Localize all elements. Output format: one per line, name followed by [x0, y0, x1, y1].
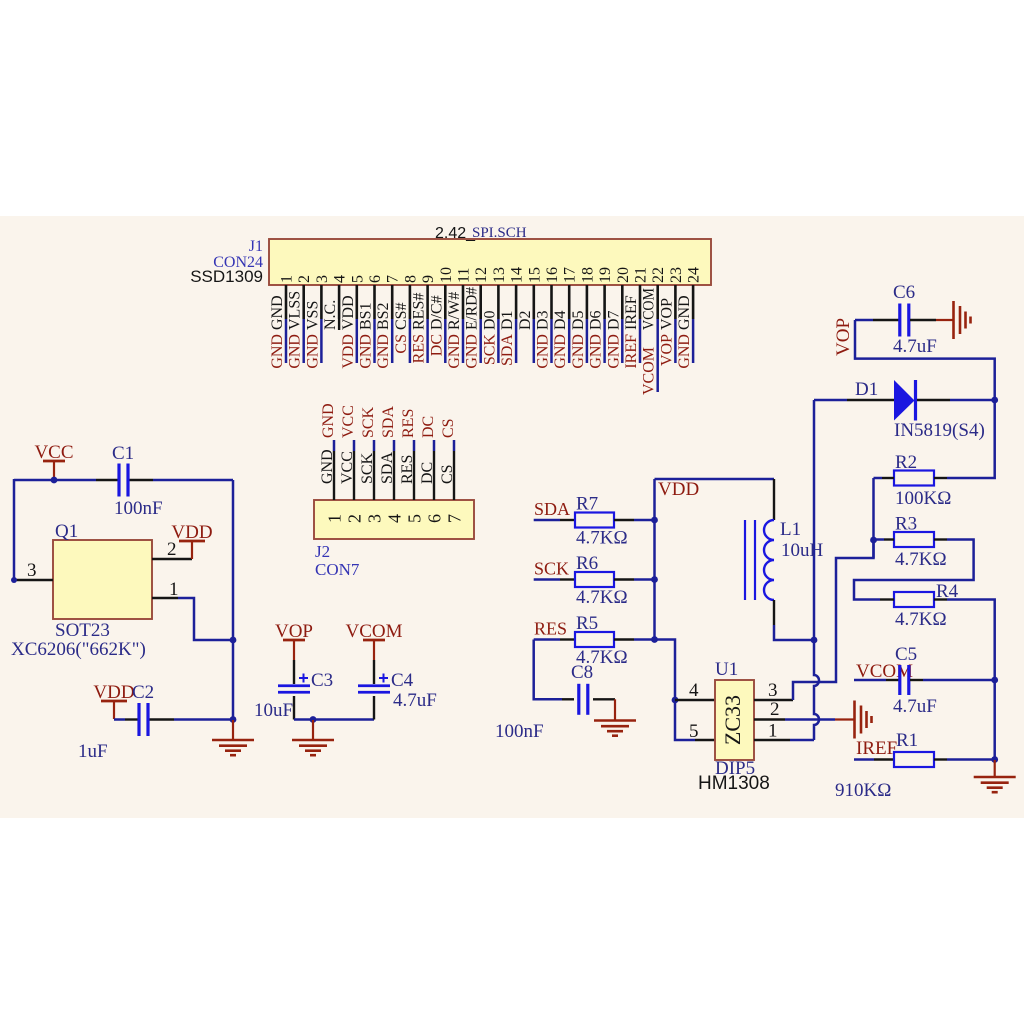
svg-text:CS: CS	[393, 334, 410, 354]
svg-text:VDD: VDD	[340, 334, 357, 369]
wire C2 to ground	[174, 718, 233, 721]
node	[651, 517, 658, 524]
svg-text:L1: L1	[780, 519, 801, 540]
wire R3 right to R4 left	[854, 540, 974, 600]
svg-text:3: 3	[768, 680, 778, 701]
svg-text:GND: GND	[358, 334, 375, 369]
node	[991, 397, 998, 404]
svg-text:7: 7	[445, 514, 465, 523]
svg-text:C2: C2	[132, 682, 154, 703]
svg-text:12: 12	[473, 267, 490, 283]
svg-text:VDD: VDD	[93, 682, 134, 703]
svg-text:Q1: Q1	[55, 521, 78, 542]
svg-text:D1: D1	[855, 379, 878, 400]
node	[991, 756, 998, 763]
svg-text:3: 3	[314, 275, 331, 283]
svg-text:R1: R1	[896, 730, 918, 751]
svg-text:VDD: VDD	[171, 522, 212, 543]
svg-text:GND: GND	[269, 295, 286, 330]
svg-text:N.C.: N.C.	[322, 300, 339, 330]
svg-text:DC: DC	[419, 462, 436, 484]
node	[870, 537, 877, 544]
ground	[614, 699, 616, 720]
wire net GND	[692, 319, 695, 363]
wire net GND	[285, 319, 288, 363]
svg-text:SDA: SDA	[534, 499, 570, 519]
U1 pin 3	[754, 699, 793, 701]
wire net GND	[479, 319, 482, 363]
svg-text:SCK: SCK	[360, 406, 377, 438]
svg-text:D3: D3	[535, 310, 552, 330]
svg-text:CON7: CON7	[315, 560, 360, 579]
diode D1 IN5819	[814, 399, 847, 402]
svg-text:100nF: 100nF	[114, 498, 163, 519]
svg-text:3: 3	[365, 514, 385, 523]
svg-text:SDA: SDA	[499, 334, 516, 366]
svg-text:23: 23	[668, 267, 685, 283]
svg-text:D1: D1	[499, 310, 516, 330]
svg-text:GND: GND	[676, 295, 693, 330]
U1 pin 4	[675, 699, 715, 701]
wire net GND	[568, 319, 571, 363]
svg-text:4.7uF: 4.7uF	[893, 336, 937, 357]
svg-text:RES: RES	[400, 409, 417, 438]
U1 pin 1	[754, 739, 790, 741]
wire net RES	[426, 319, 429, 363]
connector J2 CON7	[314, 500, 474, 539]
svg-text:HM1308: HM1308	[698, 773, 770, 794]
svg-text:1uF: 1uF	[78, 741, 108, 762]
svg-text:IN5819(S4): IN5819(S4)	[894, 420, 985, 441]
svg-text:6: 6	[367, 275, 384, 283]
svg-text:BS2: BS2	[375, 302, 392, 330]
svg-text:SDA: SDA	[379, 452, 396, 484]
wire RES down	[534, 640, 562, 700]
capacitor C4 polarized	[373, 660, 375, 684]
wire net GND	[373, 319, 376, 363]
svg-text:8: 8	[402, 275, 419, 283]
svg-text:SOT23: SOT23	[55, 620, 110, 641]
wire net SCK	[534, 578, 560, 581]
svg-text:VCOM: VCOM	[345, 621, 402, 642]
svg-text:ZC33: ZC33	[720, 695, 745, 745]
svg-text:GND: GND	[605, 334, 622, 369]
svg-text:GND: GND	[464, 334, 481, 369]
ground rotated at pin2	[835, 718, 855, 720]
connector J1 CON24 SSD1309	[269, 239, 711, 285]
ground	[994, 760, 996, 777]
resistor R2 100K	[894, 471, 934, 486]
wire net SDA	[393, 440, 396, 451]
svg-text:R/W#: R/W#	[446, 292, 463, 330]
svg-text:22: 22	[650, 267, 667, 283]
capacitor C3 polarized	[293, 660, 295, 684]
capacitor C1	[96, 479, 119, 481]
svg-text:10uF: 10uF	[254, 700, 293, 721]
wire pin1 to VDD node	[178, 598, 233, 640]
svg-text:VCC: VCC	[339, 451, 356, 484]
node VCC junction	[51, 477, 58, 484]
svg-text:4: 4	[689, 680, 699, 701]
wire L1 to node	[774, 625, 814, 640]
svg-text:VOP: VOP	[658, 334, 675, 366]
inductor L1 10uH	[773, 479, 775, 520]
wire VDD rail right	[653, 479, 656, 640]
svg-text:GND: GND	[570, 334, 587, 369]
svg-text:XC6206("662K"): XC6206("662K")	[11, 639, 146, 660]
wire net CS	[409, 319, 412, 363]
svg-text:10uH: 10uH	[781, 540, 824, 561]
svg-text:RES#: RES#	[411, 293, 428, 330]
svg-text:VCC: VCC	[34, 442, 73, 463]
svg-text:SSD1309: SSD1309	[190, 267, 263, 286]
svg-text:2: 2	[345, 514, 365, 523]
svg-text:5: 5	[349, 275, 366, 283]
wire net IREF	[639, 319, 642, 363]
svg-text:R3: R3	[895, 514, 917, 535]
transistor Q1 regulator	[53, 540, 152, 619]
wire net GND	[621, 319, 624, 363]
svg-text:DC: DC	[428, 334, 445, 356]
svg-text:VCOM: VCOM	[641, 288, 658, 330]
wire net VOP	[674, 319, 677, 363]
wire net SCK	[373, 440, 376, 451]
svg-text:GND: GND	[304, 334, 321, 369]
svg-text:5: 5	[689, 721, 699, 742]
svg-text:IREF: IREF	[856, 738, 897, 759]
svg-text:SCK: SCK	[359, 452, 376, 484]
svg-text:D2: D2	[517, 310, 534, 330]
svg-text:C8: C8	[571, 662, 593, 683]
svg-text:D6: D6	[588, 310, 605, 330]
svg-text:4.7KΩ: 4.7KΩ	[576, 587, 628, 608]
power port VCOM	[363, 639, 385, 642]
Q1 pin 2	[152, 558, 192, 560]
capacitor C8	[562, 698, 574, 700]
svg-text:D4: D4	[552, 310, 569, 330]
wire net SCK	[497, 319, 500, 363]
node ground junction	[230, 716, 237, 723]
node L1	[811, 637, 818, 644]
svg-text:18: 18	[579, 267, 596, 283]
svg-text:19: 19	[597, 267, 614, 283]
svg-text:C1: C1	[112, 443, 134, 464]
svg-text:RES: RES	[399, 455, 416, 484]
resistor R4	[894, 592, 934, 607]
power port VDD at C2	[101, 700, 127, 703]
wire net RES	[534, 638, 560, 641]
wire switch node vertical with hops	[814, 400, 819, 740]
power port VDD	[179, 540, 205, 543]
svg-text:RES: RES	[411, 334, 428, 363]
svg-text:1: 1	[169, 579, 179, 600]
wire pin1 to switch node	[790, 739, 814, 742]
svg-text:RES: RES	[534, 619, 567, 639]
svg-text:R2: R2	[895, 452, 917, 473]
svg-text:D7: D7	[605, 310, 622, 330]
svg-text:17: 17	[562, 267, 579, 283]
wire net GND	[603, 319, 606, 363]
op-amp U1 ZC33	[715, 680, 754, 760]
wire R4 right down	[947, 600, 995, 761]
svg-text:4: 4	[332, 275, 349, 283]
svg-text:SCK: SCK	[481, 334, 498, 366]
svg-text:9: 9	[420, 275, 437, 283]
svg-text:GND: GND	[588, 334, 605, 369]
svg-text:4.7KΩ: 4.7KΩ	[576, 528, 628, 549]
svg-text:5: 5	[405, 514, 425, 523]
svg-text:VOP: VOP	[833, 318, 854, 356]
wire net GND	[320, 319, 323, 363]
svg-text:GND: GND	[320, 403, 337, 438]
svg-text:2: 2	[296, 275, 313, 283]
wire pin3 to R3 node	[793, 540, 874, 700]
wire VDD vertical	[232, 480, 235, 720]
svg-text:VLSS: VLSS	[287, 291, 304, 330]
resistor R3	[894, 532, 934, 547]
node VDD	[230, 637, 237, 644]
svg-text:J1: J1	[249, 238, 263, 255]
svg-text:R5: R5	[576, 613, 598, 634]
svg-text:U1: U1	[715, 659, 738, 680]
svg-text:D5: D5	[570, 310, 587, 330]
wire net GND	[333, 440, 336, 451]
svg-text:D/C#: D/C#	[428, 295, 445, 330]
wire to pin3	[13, 479, 16, 580]
svg-text:C4: C4	[391, 670, 414, 691]
wire net DC	[444, 319, 447, 363]
svg-text:10: 10	[438, 267, 455, 283]
svg-text:GND: GND	[287, 334, 304, 369]
wire net SDA	[534, 519, 560, 522]
svg-text:CS#: CS#	[393, 302, 410, 330]
svg-text:R6: R6	[576, 553, 598, 574]
wire net RES	[413, 440, 416, 451]
wire net GND	[586, 319, 589, 363]
svg-text:GND: GND	[535, 334, 552, 369]
node	[651, 636, 658, 643]
power port VOP	[283, 639, 305, 642]
svg-text:1: 1	[325, 514, 345, 523]
svg-text:1: 1	[768, 721, 778, 742]
wire pin2 to ground	[785, 718, 835, 721]
wire net VDD	[356, 319, 359, 363]
wire net GND	[391, 319, 394, 363]
wire net CS	[453, 440, 456, 451]
svg-text:100nF: 100nF	[495, 721, 544, 742]
ground rotated at C6	[936, 319, 954, 321]
svg-text:VSS: VSS	[304, 301, 321, 330]
svg-text:J2: J2	[315, 542, 330, 561]
svg-text:CS: CS	[440, 418, 457, 438]
wire VOP net	[855, 320, 995, 478]
svg-text:21: 21	[633, 267, 650, 283]
wire net GND	[550, 319, 553, 363]
svg-text:4.7uF: 4.7uF	[893, 696, 937, 717]
svg-text:100KΩ: 100KΩ	[895, 488, 951, 509]
svg-text:SCK: SCK	[534, 559, 569, 579]
svg-text:GND: GND	[552, 334, 569, 369]
svg-text:GND: GND	[319, 449, 336, 484]
resistor R1 910K	[854, 758, 874, 761]
svg-text:24: 24	[686, 267, 703, 283]
Q1 pin 1	[152, 597, 178, 599]
svg-text:20: 20	[615, 267, 632, 283]
svg-text:VOP: VOP	[658, 298, 675, 330]
capacitor C2	[114, 718, 125, 721]
node	[991, 677, 998, 684]
svg-text:15: 15	[526, 267, 543, 283]
svg-text:4.7KΩ: 4.7KΩ	[895, 609, 947, 630]
wire net GND	[302, 319, 305, 363]
svg-text:C3: C3	[311, 670, 333, 691]
svg-text:E/RD#: E/RD#	[464, 287, 481, 330]
svg-text:910KΩ: 910KΩ	[835, 780, 891, 801]
svg-text:GND: GND	[269, 334, 286, 369]
svg-text:7: 7	[385, 275, 402, 283]
svg-text:GND: GND	[446, 334, 463, 369]
U1 pin 2	[754, 718, 785, 720]
wire VCC rail	[14, 479, 96, 482]
wire net GND	[462, 319, 465, 363]
svg-text:IREF: IREF	[623, 334, 640, 369]
svg-text:2: 2	[770, 699, 780, 720]
wire R5 to U1 pins 4,5	[655, 640, 696, 741]
wire C3/C4 to ground	[294, 718, 374, 721]
svg-text:BS1: BS1	[358, 302, 375, 330]
ground	[232, 720, 234, 740]
power port VCC	[43, 460, 65, 463]
svg-text:VDD: VDD	[340, 295, 357, 330]
wire R2-R3 left node	[872, 478, 875, 558]
wire net VCC	[353, 440, 356, 451]
node	[310, 716, 317, 723]
svg-text:1: 1	[279, 275, 296, 283]
svg-text:4.7KΩ: 4.7KΩ	[895, 549, 947, 570]
Q1 pin 3	[15, 579, 53, 581]
svg-text:3: 3	[27, 560, 37, 581]
svg-text:GND: GND	[676, 334, 693, 369]
svg-text:4: 4	[385, 514, 405, 523]
svg-text:VOP: VOP	[275, 621, 313, 642]
wire net DC	[433, 440, 436, 451]
svg-text:2.42_: 2.42_	[435, 225, 476, 242]
svg-text:14: 14	[509, 267, 526, 283]
svg-text:D0: D0	[481, 310, 498, 330]
svg-text:C6: C6	[893, 282, 915, 303]
svg-text:11: 11	[456, 268, 473, 283]
node	[651, 576, 658, 583]
svg-text:SDA: SDA	[380, 406, 397, 438]
svg-text:VDD: VDD	[658, 479, 699, 500]
node pin4	[672, 697, 679, 704]
U1 pin 5	[695, 739, 715, 741]
svg-text:CS: CS	[439, 464, 456, 484]
svg-text:VCC: VCC	[340, 405, 357, 438]
svg-text:DC: DC	[420, 416, 437, 438]
svg-text:IREF: IREF	[623, 295, 640, 330]
svg-text:GND: GND	[375, 334, 392, 369]
wire net VCOM	[656, 319, 659, 392]
svg-text:R7: R7	[576, 494, 598, 515]
svg-text:4.7uF: 4.7uF	[393, 690, 437, 711]
svg-text:VCOM: VCOM	[641, 347, 658, 395]
wire net SDA	[515, 319, 518, 363]
svg-text:SPI.SCH: SPI.SCH	[472, 225, 527, 241]
ground	[312, 720, 314, 740]
svg-text:16: 16	[544, 267, 561, 283]
svg-text:6: 6	[425, 514, 445, 523]
svg-text:13: 13	[491, 267, 508, 283]
